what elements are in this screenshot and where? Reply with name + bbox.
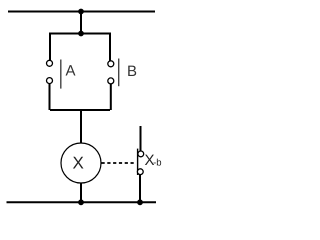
svg-text:-b: -b: [153, 158, 161, 169]
svg-text:X: X: [73, 154, 84, 173]
svg-text:B: B: [127, 63, 137, 80]
svg-text:A: A: [66, 63, 76, 80]
